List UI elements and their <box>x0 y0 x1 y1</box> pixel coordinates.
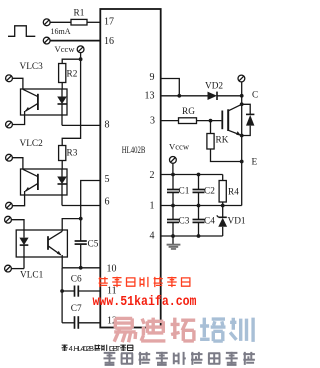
wire VLC3 top terminal to collector <box>12 78 23 89</box>
wire pin 9 <box>161 79 180 96</box>
svg-text:HL402B: HL402B <box>122 145 146 155</box>
junction pin1/R4/VD1 <box>221 204 225 208</box>
wire pin 1 <box>161 205 242 207</box>
wire Vccw rail down to R3 branch <box>62 53 80 146</box>
svg-text:HL402B: HL402B <box>74 344 95 353</box>
svg-text:R3: R3 <box>67 149 78 159</box>
wire T2 to pin 16 <box>50 40 100 42</box>
svg-text:E: E <box>252 158 258 168</box>
junction collector node <box>240 102 244 106</box>
ground <box>167 236 181 250</box>
wire C terminal down rail to pin 1 line <box>241 82 243 206</box>
svg-text:C1: C1 <box>179 187 190 197</box>
capacitor C6 (pin 11) <box>62 286 100 297</box>
junction Vccw/R2 <box>79 57 83 61</box>
junction pin5/C5/collector <box>79 217 83 221</box>
wire VLC2 bottom terminal to emitter <box>12 191 24 206</box>
svg-text:R4: R4 <box>228 188 239 198</box>
wire T1 to R1 <box>50 21 71 23</box>
wire pin 5 down to Vccw node <box>81 181 101 219</box>
capacitor C3 <box>167 206 179 237</box>
wire pin 8 <box>62 124 100 126</box>
svg-text:2: 2 <box>150 170 155 181</box>
resistor R2 <box>59 64 66 83</box>
svg-text:R2: R2 <box>67 70 78 80</box>
wire RG to gate <box>197 120 222 122</box>
svg-text:Vccw: Vccw <box>169 141 190 151</box>
junction pin9/pin13 <box>177 94 181 98</box>
pulse waveform symbol <box>8 26 35 37</box>
diode VD2 <box>208 92 242 100</box>
wire R1 to pin 17 <box>87 21 100 23</box>
svg-text:VD2: VD2 <box>205 82 223 92</box>
wire branch to R2 <box>62 59 80 63</box>
watermark slogan 射频和天线设计专家 (vector strokes) <box>104 352 255 365</box>
svg-text:16: 16 <box>104 36 114 47</box>
wire pin 6 <box>62 205 100 207</box>
svg-text:17: 17 <box>104 17 114 28</box>
wire VLC1 collector to Vccw node <box>62 219 80 232</box>
capacitor C1 <box>167 175 179 206</box>
resistor RK <box>207 121 242 162</box>
svg-text:9: 9 <box>150 72 155 83</box>
wire VLC1 emitter to pin 10 <box>61 255 63 268</box>
svg-text:C2: C2 <box>204 187 215 197</box>
wire R3 to VLC2 LED anode <box>61 161 63 170</box>
svg-text:VLC3: VLC3 <box>20 62 44 72</box>
VLC3 LED <box>57 89 67 125</box>
resistor R1 <box>71 19 87 25</box>
wire pin 2 <box>161 174 223 176</box>
svg-text:C7: C7 <box>71 304 82 314</box>
capacitor C5 <box>75 219 87 268</box>
svg-text:C5: C5 <box>88 240 99 250</box>
terminal C (collector) <box>238 75 245 82</box>
optocoupler VLC2 box <box>21 169 68 195</box>
VLC2 LED <box>57 169 67 206</box>
capacitor C2 <box>193 175 205 206</box>
svg-text:C: C <box>252 91 258 101</box>
VLC1 phototransistor <box>48 231 62 255</box>
junction pin4/ground <box>171 234 175 238</box>
wire Vccw right to pin 2 line <box>172 163 174 174</box>
capacitor C4 <box>193 206 205 237</box>
junction pin4/C4 <box>197 234 201 238</box>
resistor RG <box>179 118 197 124</box>
input terminal T2 (to pin16) <box>43 37 50 44</box>
VLC1 top terminal <box>5 216 12 223</box>
svg-text:6: 6 <box>105 197 110 208</box>
resistor R3 <box>59 146 66 161</box>
wire R2 to VLC3 LED anode <box>61 83 63 90</box>
junction pin2/C2 <box>197 173 201 177</box>
VLC2 bottom terminal <box>6 202 13 209</box>
wire rail down to C6/C7 <box>61 268 63 323</box>
VLC2 phototransistor <box>23 169 38 191</box>
svg-text:R1: R1 <box>74 8 85 18</box>
svg-text:www.51kaifa.com: www.51kaifa.com <box>93 294 197 310</box>
svg-text:8: 8 <box>105 120 110 131</box>
VLC3 bottom terminal <box>6 121 13 128</box>
input terminal T1 (drive input to R1/pin17) <box>43 19 50 26</box>
wire pin 13 to VD2 <box>161 95 208 97</box>
zener diode VD1 <box>217 206 227 237</box>
VLC1 LED <box>19 230 28 269</box>
resistor R4 <box>219 175 226 206</box>
VLC3 top terminal <box>6 75 13 82</box>
wire VLC1 top terminal to LED anode <box>11 220 24 230</box>
svg-text:RG: RG <box>182 107 195 117</box>
svg-text:16mA: 16mA <box>51 27 71 36</box>
wire VLC1 bottom terminal to LED cathode <box>11 268 24 270</box>
VLC3 phototransistor <box>23 89 38 111</box>
optocoupler VLC1 box <box>16 230 67 257</box>
svg-text:10: 10 <box>107 264 117 275</box>
junction pin1/C1/C3 <box>171 204 175 208</box>
junction pin1/C2/C4 <box>197 204 201 208</box>
junction VD2/C rail <box>240 94 244 98</box>
caption CJK glyphs (vector strokes) <box>62 345 134 352</box>
VLC1 bottom terminal <box>5 265 12 272</box>
caption latin text 4.HL402B / IGBT <box>69 344 121 353</box>
terminal Vccw right <box>170 157 177 164</box>
svg-text:Vccw: Vccw <box>55 44 76 54</box>
junction RK/E rail <box>240 160 244 164</box>
svg-text:C3: C3 <box>179 217 190 227</box>
terminal Vccw left <box>77 46 84 53</box>
svg-text:C6: C6 <box>71 274 82 284</box>
svg-text:VLC1: VLC1 <box>20 271 44 281</box>
VLC2 top terminal <box>6 154 13 161</box>
svg-text:5: 5 <box>105 174 110 185</box>
svg-text:1: 1 <box>150 201 155 212</box>
svg-text:VLC2: VLC2 <box>20 139 44 149</box>
wire VLC2 top terminal to collector <box>12 158 23 169</box>
watermark logo 易迪拓培训 (vector strokes) <box>114 318 253 343</box>
junction C5/pin10 <box>79 266 83 270</box>
watermark red text 无忧电子开发板 (vector strokes) <box>99 277 191 287</box>
wire pin 4 <box>161 235 223 237</box>
svg-text:RK: RK <box>216 136 229 146</box>
op-amp U1 HL402B IC box <box>100 9 160 328</box>
svg-text:VD1: VD1 <box>228 217 246 227</box>
diode VD (antiparallel with IGBT) <box>242 104 255 135</box>
transistor VT (IGBT) <box>222 104 241 135</box>
junction pin2/C1 <box>171 173 175 177</box>
junction gate/RK <box>209 119 213 123</box>
svg-text:4: 4 <box>150 231 155 242</box>
wire pin 10 <box>62 267 100 269</box>
optocoupler VLC3 box <box>21 89 68 115</box>
svg-text:IGBT: IGBT <box>109 344 121 353</box>
wire VLC3 bottom terminal to emitter <box>12 111 24 125</box>
svg-text:13: 13 <box>145 91 155 102</box>
wire pin 3 to RG <box>161 120 179 122</box>
svg-text:3: 3 <box>150 116 155 127</box>
capacitor C7 (pin 12) <box>62 316 100 329</box>
junction emitter node <box>240 134 244 138</box>
svg-text:C4: C4 <box>204 217 215 227</box>
junction C6 tee <box>60 289 64 293</box>
